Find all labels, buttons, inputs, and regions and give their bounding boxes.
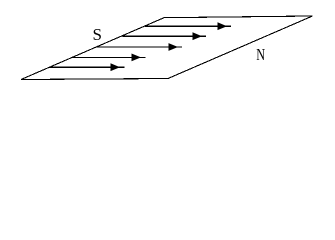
arrow 3 xyxy=(97,43,183,51)
svg-text:N: N xyxy=(256,46,265,64)
parallelogram plane (magnet pole face) xyxy=(21,16,313,80)
arrow 2 xyxy=(123,32,207,40)
arrow 4 xyxy=(73,54,146,62)
svg-text:S: S xyxy=(93,25,102,44)
arrow 1 (top) xyxy=(145,22,231,30)
arrow 5 (bottom) xyxy=(50,63,125,71)
